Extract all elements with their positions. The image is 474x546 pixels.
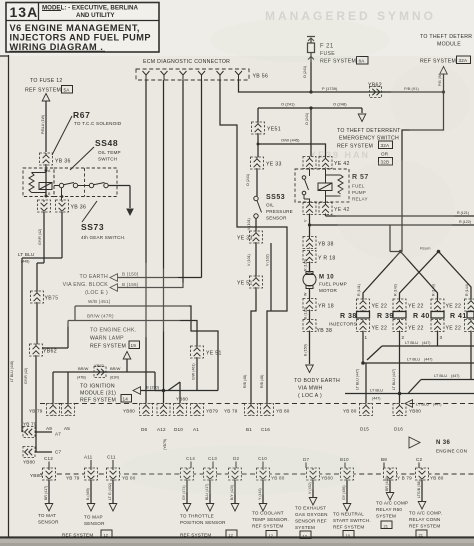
- svg-text:R67: R67: [73, 110, 90, 120]
- svg-text:BR/W: BR/W: [110, 366, 121, 371]
- svg-text:(47B): (47B): [77, 376, 86, 380]
- connector row2 throttle 1: [181, 468, 194, 480]
- svg-text:YB 36: YB 36: [55, 159, 71, 165]
- svg-text:LT BLU (448): LT BLU (448): [10, 361, 14, 382]
- svg-text:TO A/C COMP.: TO A/C COMP.: [409, 511, 442, 516]
- pin C13: [208, 456, 217, 468]
- svg-text:O (241): O (241): [305, 113, 309, 125]
- node TO COOLANT TEMP SENSOR: [252, 511, 289, 539]
- connector row2 throttle 2: [204, 468, 217, 480]
- svg-text:BR/W: BR/W: [78, 366, 89, 371]
- label SS53: [266, 194, 293, 221]
- pin C12: [44, 456, 53, 468]
- svg-text:SENSOR: SENSOR: [266, 216, 287, 221]
- svg-text:YE 22: YE 22: [372, 326, 388, 332]
- pin 2: [161, 71, 168, 80]
- pin 5: [217, 71, 224, 80]
- svg-text:WIRING DIAGRAM .: WIRING DIAGRAM .: [10, 42, 104, 52]
- svg-text:YE 22: YE 22: [408, 304, 424, 310]
- svg-text:D10: D10: [174, 427, 183, 432]
- svg-text:SS48: SS48: [95, 138, 118, 148]
- connector row2 coolant: [257, 468, 285, 481]
- svg-text:3: 3: [440, 335, 443, 340]
- svg-text:YB 79: YB 79: [66, 476, 80, 481]
- section sensors: [38, 477, 442, 539]
- connector YE22 top 1: [357, 299, 388, 311]
- svg-text:TO BODY EARTH: TO BODY EARTH: [294, 378, 340, 384]
- wire V101 b: [247, 243, 271, 311]
- svg-text:YE 22: YE 22: [408, 326, 424, 332]
- svg-text:GY/R (42): GY/R (42): [38, 229, 42, 245]
- svg-text:LT BLU (447): LT BLU (447): [356, 369, 360, 390]
- wire P 1739: [309, 86, 445, 94]
- ECM boundary row 1: [40, 403, 474, 405]
- connector YE51 mid: [191, 346, 222, 358]
- connector YB62 ignition: [94, 367, 106, 378]
- wire GY 474: [182, 480, 191, 511]
- resistor R67: [29, 173, 34, 193]
- connector YB38 bottom: [303, 320, 332, 335]
- wire BR/W 47R: [42, 314, 197, 349]
- svg-text:GY/R (42): GY/R (42): [24, 368, 28, 384]
- switch SS53: [254, 196, 262, 231]
- svg-text:R/B (48): R/B (48): [243, 375, 247, 388]
- wire Y 448: [258, 480, 267, 511]
- connector YE22 bottom 3: [431, 320, 461, 332]
- svg-text:C2: C2: [416, 457, 423, 462]
- svg-text:TO T.C.C SOLENOID: TO T.C.C SOLENOID: [74, 121, 122, 126]
- module N36 label: [409, 437, 467, 454]
- svg-text:POSITION SENSOR: POSITION SENSOR: [180, 520, 226, 525]
- wire pin4 down: [201, 80, 203, 278]
- svg-text:YB 80: YB 80: [430, 476, 444, 481]
- pin 3: [180, 71, 187, 80]
- svg-text:D6: D6: [141, 427, 148, 432]
- wire fan to injector 4: [439, 252, 472, 301]
- pin B10: [340, 457, 349, 468]
- left edge connector YB79: [22, 422, 61, 438]
- connector YB36 right lower: [56, 200, 87, 212]
- svg-text:FUEL PUMP: FUEL PUMP: [319, 282, 347, 287]
- svg-text:32A: 32A: [381, 143, 391, 148]
- injector R39: [377, 312, 406, 321]
- svg-text:YE 22: YE 22: [372, 304, 388, 310]
- wire pin5 jog: [220, 80, 287, 311]
- svg-text:R 41: R 41: [450, 313, 467, 320]
- connector YE51 lower: [237, 276, 263, 288]
- wire fan to injector 3: [401, 252, 438, 301]
- wire to SS53: [246, 169, 257, 196]
- section top-right: [258, 34, 472, 252]
- wire pin3 down: [182, 80, 184, 288]
- relay resistor: [338, 175, 343, 194]
- wire YB75 to YB62: [36, 303, 38, 344]
- svg-text:P/BLU (1W): P/BLU (1W): [41, 115, 45, 134]
- connector YR18 bottom: [303, 299, 334, 311]
- svg-text:REF SYSTEM: REF SYSTEM: [62, 533, 93, 538]
- svg-text:MODULE (31): MODULE (31): [80, 391, 116, 397]
- connector YB80 D6: [123, 404, 153, 416]
- connector YB36 top: [40, 153, 71, 165]
- svg-text:YE 51: YE 51: [206, 351, 222, 357]
- connector YE51 top: [252, 122, 281, 134]
- svg-text:R/B (48): R/B (48): [260, 375, 264, 388]
- svg-text:A1: A1: [193, 427, 199, 432]
- injector R40: [413, 312, 444, 321]
- svg-text:O (248): O (248): [333, 102, 347, 107]
- svg-text:D15: D15: [360, 427, 369, 432]
- svg-text:C7: C7: [55, 450, 62, 455]
- svg-text:A11: A11: [84, 455, 93, 460]
- svg-text:12: 12: [104, 533, 109, 538]
- injector feed bus: [390, 225, 440, 253]
- node TO THROTTLE POSITION SENSOR: [180, 514, 237, 538]
- svg-text:21: 21: [384, 524, 389, 529]
- svg-text:YE 42: YE 42: [334, 161, 350, 167]
- connector row2 oxygen: [307, 468, 334, 481]
- svg-text:LT BLU: LT BLU: [370, 388, 383, 393]
- wire B 469 map: [86, 480, 95, 511]
- svg-text:OR: OR: [381, 152, 389, 157]
- svg-text:YB 38: YB 38: [318, 242, 334, 248]
- svg-text:TO NEUTRAL: TO NEUTRAL: [333, 512, 364, 517]
- node TO BODY EARTH VIA MWH: [294, 378, 340, 399]
- node TO NEUTRAL START SWITCH: [333, 512, 371, 539]
- connector YB38 top: [303, 237, 334, 249]
- svg-text:TEMP SENSOR.: TEMP SENSOR.: [252, 517, 289, 522]
- connector A12: [157, 397, 188, 416]
- svg-text:YB 79: YB 79: [23, 422, 37, 427]
- svg-text:1: 1: [365, 335, 368, 340]
- wire BR/W ignition row: [53, 363, 155, 403]
- LT BLU bus line D: [345, 332, 474, 401]
- svg-text:R (143): R (143): [432, 284, 436, 296]
- svg-text:BR (417): BR (417): [44, 486, 48, 500]
- svg-text:(447): (447): [372, 397, 380, 401]
- section mid-center: [237, 108, 474, 403]
- label R67: [52, 110, 122, 155]
- connector YE22 bottom 4: [465, 320, 474, 332]
- connector YE22 bottom 2: [393, 320, 424, 332]
- svg-text:YE 33: YE 33: [237, 236, 253, 242]
- svg-text:R (142): R (142): [394, 284, 398, 296]
- svg-text:PRESSURE: PRESSURE: [266, 209, 293, 214]
- node switch B: [61, 195, 64, 198]
- svg-text:SYSTEM: SYSTEM: [295, 525, 315, 530]
- svg-text:GY (456): GY (456): [342, 485, 346, 500]
- wire G/W: [192, 358, 198, 391]
- svg-text:(447): (447): [424, 358, 432, 362]
- connector YR18 top: [303, 251, 336, 263]
- pin C14: [186, 456, 195, 468]
- svg-text:B (120): B (120): [304, 307, 308, 319]
- svg-text:B1: B1: [246, 427, 252, 432]
- svg-text:ECM DIAGNOSTIC CONNECTOR: ECM DIAGNOSTIC CONNECTOR: [143, 59, 230, 65]
- connector row2 ac conn: [416, 468, 444, 481]
- relay coil: [318, 183, 332, 191]
- svg-text:REF SYSTEM: REF SYSTEM: [409, 524, 440, 529]
- wire fan to injector 1: [363, 252, 401, 301]
- connector YE33 lower: [237, 231, 263, 243]
- pin 4: [198, 71, 205, 80]
- svg-text:YB 80: YB 80: [276, 409, 290, 414]
- svg-text:REF SYSTEM: REF SYSTEM: [80, 398, 116, 404]
- wire pin1 down to D6: [145, 80, 147, 403]
- section ecm-diag: [136, 59, 444, 403]
- injector R38: [340, 312, 370, 321]
- svg-text:(447): (447): [451, 374, 459, 378]
- svg-text:SENSOR: SENSOR: [38, 520, 59, 525]
- svg-text:SYSTEM: SYSTEM: [376, 514, 396, 519]
- connector D15: [343, 404, 373, 416]
- svg-text:RELAY CONN: RELAY CONN: [409, 517, 440, 522]
- wire GY 456: [342, 480, 351, 511]
- svg-text:YB80: YB80: [409, 409, 421, 414]
- svg-text:12: 12: [229, 533, 234, 538]
- svg-text:YB 38: YB 38: [317, 328, 333, 334]
- svg-text:INJECTORS: INJECTORS: [329, 322, 357, 327]
- wire B150 earth: [118, 277, 202, 279]
- svg-text:LT BLU: LT BLU: [416, 402, 429, 407]
- connector row2 YB79 map: [66, 468, 98, 481]
- section mid-left: [22, 272, 222, 465]
- wire to injector bus from P/B: [402, 92, 444, 252]
- node TO THEFT DETERRENT MODULE: [420, 34, 472, 92]
- node TO FUSE 12 REF SYSTEM 5A: [25, 78, 73, 101]
- svg-text:GAS OXYGEN: GAS OXYGEN: [295, 512, 328, 517]
- pin C2: [416, 457, 423, 468]
- svg-text:TO THEFT DETERR: TO THEFT DETERR: [420, 34, 472, 40]
- svg-text:YB62: YB62: [43, 349, 57, 355]
- wire SS73 to arrow: [108, 186, 134, 217]
- wire fan to injector 2: [400, 252, 439, 301]
- svg-text:LT BLU: LT BLU: [18, 252, 34, 257]
- svg-text:SENSOR REF: SENSOR REF: [295, 519, 327, 524]
- LT BLU bus line A: [382, 332, 474, 347]
- svg-text:YB 36: YB 36: [71, 205, 87, 211]
- svg-text:SS73: SS73: [81, 222, 104, 232]
- svg-text:5A: 5A: [64, 88, 71, 93]
- wire R/B pair down to ECM: [243, 288, 271, 403]
- svg-text:OIL: OIL: [266, 203, 274, 208]
- svg-text:( LOC A ): ( LOC A ): [298, 393, 322, 399]
- fuse F21: [303, 37, 368, 93]
- svg-text:O (241): O (241): [303, 66, 307, 78]
- wire GY/R down left: [38, 212, 44, 263]
- wire BLU 417: [205, 480, 214, 511]
- svg-text:O/W (445): O/W (445): [281, 138, 300, 143]
- wire B/Y 420: [230, 480, 239, 511]
- svg-text:B8: B8: [381, 457, 387, 462]
- svg-text:R (120): R (120): [304, 259, 308, 271]
- wire GY/R lower left: [10, 356, 36, 448]
- wire O 241 to relay: [305, 108, 311, 157]
- wire relay output R: [326, 211, 474, 216]
- svg-text:REF SYSTEM: REF SYSTEM: [337, 144, 373, 150]
- node B: [45, 195, 48, 198]
- wire O 241 branch: [258, 102, 366, 122]
- svg-text:21: 21: [419, 533, 424, 538]
- svg-text:REF SYSTEM: REF SYSTEM: [180, 533, 211, 538]
- svg-text:R (144): R (144): [465, 284, 469, 296]
- wire D16 feed: [392, 369, 400, 403]
- svg-text:LTG/B (38): LTG/B (38): [417, 480, 421, 498]
- svg-text:4th GEAR SWITCH.: 4th GEAR SWITCH.: [81, 235, 126, 240]
- svg-text:(61R): (61R): [110, 376, 119, 380]
- svg-text:(447): (447): [422, 341, 430, 345]
- svg-text:12: 12: [269, 533, 274, 538]
- svg-text:ENGINE CON: ENGINE CON: [436, 449, 467, 454]
- svg-text:AND UTILITY: AND UTILITY: [76, 12, 115, 19]
- connector C16: [261, 404, 290, 416]
- svg-text:YE 22: YE 22: [446, 326, 462, 332]
- connector YE22 top 2: [393, 299, 424, 311]
- svg-text:(448): (448): [21, 260, 29, 264]
- connector row2 neutral: [341, 468, 354, 480]
- svg-text:R 40: R 40: [413, 313, 430, 320]
- connector YE22 top 3: [431, 299, 461, 311]
- node TO ENGINE CHK WARN LAMP: [90, 328, 140, 373]
- pin D2: [233, 456, 240, 468]
- svg-text:OIL TEMP: OIL TEMP: [98, 150, 121, 155]
- pin D7: [303, 457, 310, 468]
- svg-text:A12: A12: [157, 427, 166, 432]
- svg-text:R (122): R (122): [459, 220, 471, 224]
- svg-text:TO MAT: TO MAT: [38, 513, 56, 518]
- svg-text:YE 33: YE 33: [266, 162, 282, 168]
- connector YE42 bottom pair: [303, 203, 350, 215]
- node A: [45, 169, 48, 172]
- wire V 452: [308, 480, 317, 505]
- svg-text:LT BLU: LT BLU: [405, 340, 418, 345]
- junction B150: [155, 382, 218, 403]
- svg-text:A9: A9: [46, 426, 52, 431]
- svg-text:B (469): B (469): [86, 488, 90, 500]
- svg-text:32A: 32A: [459, 58, 469, 63]
- bottom page edge band: [0, 539, 474, 546]
- injector R41: [450, 312, 474, 321]
- svg-text:YB 79: YB 79: [224, 409, 238, 414]
- pin B8: [381, 457, 387, 468]
- svg-text:LT BLU: LT BLU: [434, 373, 447, 378]
- connector D10: [174, 404, 187, 416]
- connector row2 ac relay: [384, 468, 413, 481]
- svg-text:YB 80: YB 80: [343, 409, 357, 414]
- connector YE42 top pair: [303, 157, 350, 169]
- wire BR 448: [385, 477, 394, 500]
- motor M10: [303, 272, 347, 300]
- component box R67 solenoid: [23, 165, 54, 198]
- svg-text:YR 18: YR 18: [318, 304, 334, 310]
- node TO MAP SENSOR: [62, 515, 112, 538]
- svg-text:START SWITCH.: START SWITCH.: [333, 518, 371, 523]
- relay contact: [302, 176, 306, 180]
- switch SS73: [89, 183, 93, 187]
- svg-text:A5: A5: [64, 426, 70, 431]
- connector D16: [393, 404, 421, 416]
- left edge connector YB80: [23, 447, 62, 465]
- bottom border: [0, 536, 474, 538]
- svg-text:V (101): V (101): [247, 254, 251, 266]
- connector row2 YB80 mat: [30, 468, 56, 480]
- ECM boundary row 2: [40, 473, 474, 475]
- LT BLU arrow label: [405, 400, 441, 408]
- svg-text:C12: C12: [44, 456, 53, 461]
- left page border: [8, 55, 10, 537]
- svg-text:YE 51: YE 51: [237, 281, 253, 287]
- label SS48: [70, 138, 121, 170]
- svg-text:P (1739): P (1739): [322, 86, 338, 91]
- svg-text:YB80: YB80: [23, 460, 35, 465]
- svg-text:TO THEFT DETERRENT: TO THEFT DETERRENT: [337, 128, 401, 134]
- svg-text:TO EXHAUST: TO EXHAUST: [295, 506, 326, 511]
- svg-text:13A: 13A: [10, 4, 39, 20]
- svg-text:MODULE: MODULE: [437, 42, 461, 48]
- wire LTG 432: [108, 480, 117, 511]
- svg-text:R 38: R 38: [340, 313, 357, 320]
- pin 6: [235, 71, 242, 80]
- LT BLU bus line C: [421, 332, 474, 380]
- svg-text:BR (448): BR (448): [385, 477, 389, 491]
- component box SS48 SS73 switches: [54, 168, 117, 200]
- node TO MAT SENSOR: [38, 513, 59, 525]
- svg-text:YB 56: YB 56: [253, 74, 269, 80]
- wire B156 earth: [118, 287, 183, 289]
- svg-text:RELAY R60: RELAY R60: [376, 507, 402, 512]
- wire BR 417 mat: [44, 480, 53, 511]
- connector YB75: [31, 291, 59, 303]
- connector YB36 left lower: [38, 200, 51, 212]
- label SS73: [81, 201, 126, 240]
- connector YB62 left: [30, 344, 57, 356]
- svg-text:YB62: YB62: [94, 363, 105, 368]
- svg-text:REF SYSTEM: REF SYSTEM: [333, 525, 364, 530]
- wire pin2 down to A12: [163, 80, 165, 403]
- svg-text:SWITCH: SWITCH: [98, 157, 117, 162]
- svg-text:YE51: YE51: [267, 127, 281, 133]
- svg-text:R (121): R (121): [457, 211, 469, 215]
- svg-text:YB80: YB80: [123, 409, 135, 414]
- svg-text:W: W: [304, 292, 308, 296]
- switch SS48: [59, 183, 63, 187]
- node TO EARTH VIA ENG BLOCK: [63, 272, 139, 297]
- svg-text:YB80: YB80: [176, 397, 188, 402]
- node TO A/C COMP RELAY CONN: [409, 511, 442, 538]
- svg-text:B (150): B (150): [146, 385, 160, 390]
- connector YE22 bottom 1: [357, 320, 388, 332]
- svg-text:YE39 HAN: YE39 HAN: [310, 150, 370, 160]
- section ecm-rows: [29, 397, 474, 481]
- svg-text:R 39: R 39: [377, 313, 394, 320]
- wire W/B 451: [75, 299, 218, 391]
- svg-text:C16: C16: [261, 427, 270, 432]
- svg-text:SS53: SS53: [266, 194, 285, 201]
- svg-text:V (101): V (101): [247, 218, 251, 230]
- wire motor feed V: [304, 215, 474, 238]
- connector row2 throttle 3: [229, 468, 242, 480]
- pin C10: [258, 456, 267, 468]
- wire O/W 445: [257, 108, 326, 157]
- svg-text:B (150): B (150): [304, 344, 308, 356]
- svg-text:YB 79: YB 79: [29, 409, 43, 414]
- relay coil R67: [39, 183, 52, 190]
- connector YE33 top: [251, 157, 282, 169]
- relay R57 box: [295, 169, 369, 203]
- svg-text:O (241): O (241): [246, 174, 250, 186]
- svg-text:A7: A7: [55, 432, 61, 437]
- title block: [6, 3, 159, 53]
- svg-text:REF SYSTEM: REF SYSTEM: [90, 344, 126, 350]
